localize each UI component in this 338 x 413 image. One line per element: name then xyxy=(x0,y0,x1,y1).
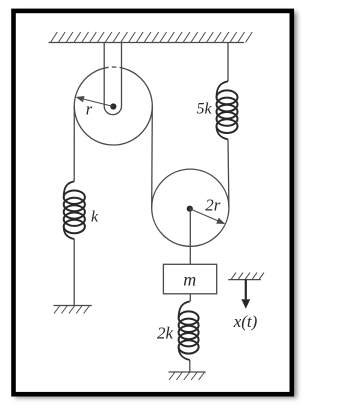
wire: ceiling to spring 5k xyxy=(227,43,229,82)
ceiling hatching xyxy=(51,32,253,43)
pulley 2 axle dot xyxy=(187,206,193,212)
label m xyxy=(183,269,196,289)
label r xyxy=(86,100,93,119)
svg-text:2r: 2r xyxy=(205,196,221,215)
svg-text:k: k xyxy=(91,209,99,226)
wire: pulley2 to mass xyxy=(189,208,191,265)
ground (left) line xyxy=(54,305,92,307)
support (x(t)) line xyxy=(228,279,261,281)
label 2k xyxy=(157,323,174,342)
wire: spring 5k to pulley2 xyxy=(227,139,230,207)
wire: spring 2k to ground xyxy=(189,360,191,372)
label 2r xyxy=(205,196,221,215)
label x(t) xyxy=(233,312,258,331)
svg-text:5k: 5k xyxy=(196,101,212,118)
ground (bottom) hatching xyxy=(169,372,205,380)
pulley 1 hidden arc (dashed) xyxy=(104,67,121,68)
svg-text:m: m xyxy=(183,269,196,289)
pulley 1 (radius r) xyxy=(74,68,152,145)
arrow x(t) xyxy=(241,280,250,309)
wire: left rope pulley1 to spring k xyxy=(73,106,75,181)
wire: mass to spring 2k xyxy=(189,294,191,302)
pulley bracket (yoke) xyxy=(104,43,121,115)
svg-text:x(t): x(t) xyxy=(233,312,258,331)
support (x(t)) hatching xyxy=(231,273,264,280)
label 5k xyxy=(196,101,212,118)
spring 2k xyxy=(179,301,199,360)
picture frame xyxy=(14,11,292,394)
frame shadow xyxy=(15,12,297,398)
spring k xyxy=(64,181,85,239)
label k xyxy=(91,209,99,226)
spring 5k xyxy=(217,81,238,139)
svg-text:r: r xyxy=(86,100,93,119)
svg-text:2k: 2k xyxy=(157,323,174,342)
mass m xyxy=(163,264,216,294)
ground (left) hatching xyxy=(54,306,90,314)
pulley 1 axle dot xyxy=(110,103,116,109)
ground (bottom) line xyxy=(169,371,206,373)
wire: spring k to ground xyxy=(73,239,75,306)
wire: rope pulley1 to pulley2 xyxy=(151,106,154,208)
ceiling line xyxy=(49,42,245,44)
pulley 2 (radius 2r) xyxy=(152,169,229,246)
radius arrow 2r xyxy=(190,209,226,224)
radius arrow r xyxy=(76,96,114,107)
